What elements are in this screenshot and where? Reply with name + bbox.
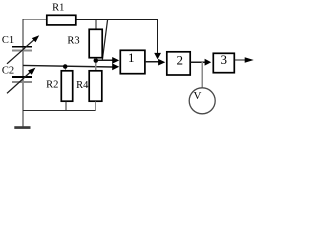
arrow into block2 [158, 59, 165, 66]
wire R1 output to right corner [76, 19, 158, 21]
svg-text:2: 2 [177, 53, 184, 68]
svg-text:3: 3 [221, 52, 228, 67]
arrow into block3 [205, 59, 212, 66]
wire R3 top stub [95, 20, 97, 30]
resistor R2 [61, 71, 72, 101]
wire vertical down to summing arrow [157, 20, 159, 54]
capacitor C1 plates [12, 46, 32, 48]
wire vertical from R1 wire to block 1 input [102, 20, 107, 61]
block 2 [167, 52, 190, 75]
block 1 [120, 50, 145, 73]
svg-text:R3: R3 [67, 36, 79, 47]
arrow down into wire between block1 and block2 [154, 53, 161, 59]
block 3 [213, 53, 234, 72]
svg-text:V: V [194, 90, 202, 102]
arrow into block1 lower input [112, 63, 119, 70]
wire bottom rail [23, 110, 96, 112]
wire left vertical bus [22, 19, 24, 127]
svg-text:C1: C1 [2, 35, 14, 46]
output arrow [245, 57, 254, 63]
svg-text:R4: R4 [76, 80, 89, 91]
wire capacitor bus to block1 lower input [23, 65, 113, 67]
svg-text:R2: R2 [46, 80, 58, 91]
svg-text:R1: R1 [52, 3, 64, 14]
wire block2 to block3 [191, 61, 206, 63]
wire R4 bottom stub [95, 102, 97, 111]
wire line from R3 bottom node to block1 upper input [96, 59, 113, 61]
wire from left vertical to R1 [23, 19, 47, 21]
wire stub down to voltmeter [201, 62, 203, 88]
wire block1 to block2 [145, 61, 160, 63]
node junction dot above R2 [63, 64, 68, 69]
svg-text:C2: C2 [2, 66, 14, 77]
capacitor C2 arrow [7, 72, 31, 93]
svg-text:1: 1 [128, 50, 135, 65]
resistor R3 [89, 29, 102, 57]
voltmeter V [189, 88, 215, 114]
wire R2 top stub [65, 66, 67, 71]
capacitor C1 arrow [7, 39, 35, 64]
node junction dot R3/R4 [94, 58, 99, 63]
arrow into block1 upper input [112, 57, 119, 64]
wire R2 bottom stub [65, 102, 67, 111]
capacitor C2 plates [12, 76, 32, 78]
wire R3 bottom to R4 top stub [95, 58, 97, 71]
ground [14, 126, 30, 129]
resistor R1 [47, 15, 76, 25]
wire output of block3 [235, 59, 247, 61]
resistor R4 [89, 71, 102, 101]
